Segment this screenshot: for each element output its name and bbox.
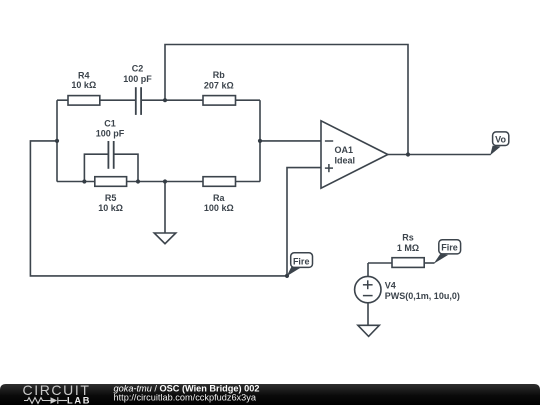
svg-text:Fire: Fire [441,243,458,253]
svg-text:V4: V4 [385,280,396,290]
svg-text:Rb: Rb [213,70,225,80]
svg-text:1 MΩ: 1 MΩ [397,243,419,253]
svg-text:Fire: Fire [293,257,310,267]
svg-text:10 kΩ: 10 kΩ [71,80,96,90]
svg-text:LAB: LAB [67,396,91,405]
svg-text:Vo: Vo [495,135,506,145]
svg-text:Rs: Rs [402,233,414,243]
svg-text:OA1: OA1 [335,145,354,155]
svg-text:10 kΩ: 10 kΩ [98,203,123,213]
svg-text:207 kΩ: 207 kΩ [204,81,234,91]
svg-text:100 pF: 100 pF [123,74,152,84]
svg-text:R5: R5 [105,193,117,203]
svg-text:C2: C2 [132,64,144,74]
svg-text:100 kΩ: 100 kΩ [204,203,234,213]
svg-text:R4: R4 [78,70,90,80]
svg-text:Ideal: Ideal [335,156,356,166]
svg-text:100 pF: 100 pF [96,129,125,139]
svg-text:PWS(0,1m, 10u,0): PWS(0,1m, 10u,0) [385,291,460,301]
svg-text:Ra: Ra [213,193,225,203]
svg-text:http://circuitlab.com/cckpfudz: http://circuitlab.com/cckpfudz6x3ya [114,392,257,402]
svg-text:C1: C1 [104,118,116,128]
